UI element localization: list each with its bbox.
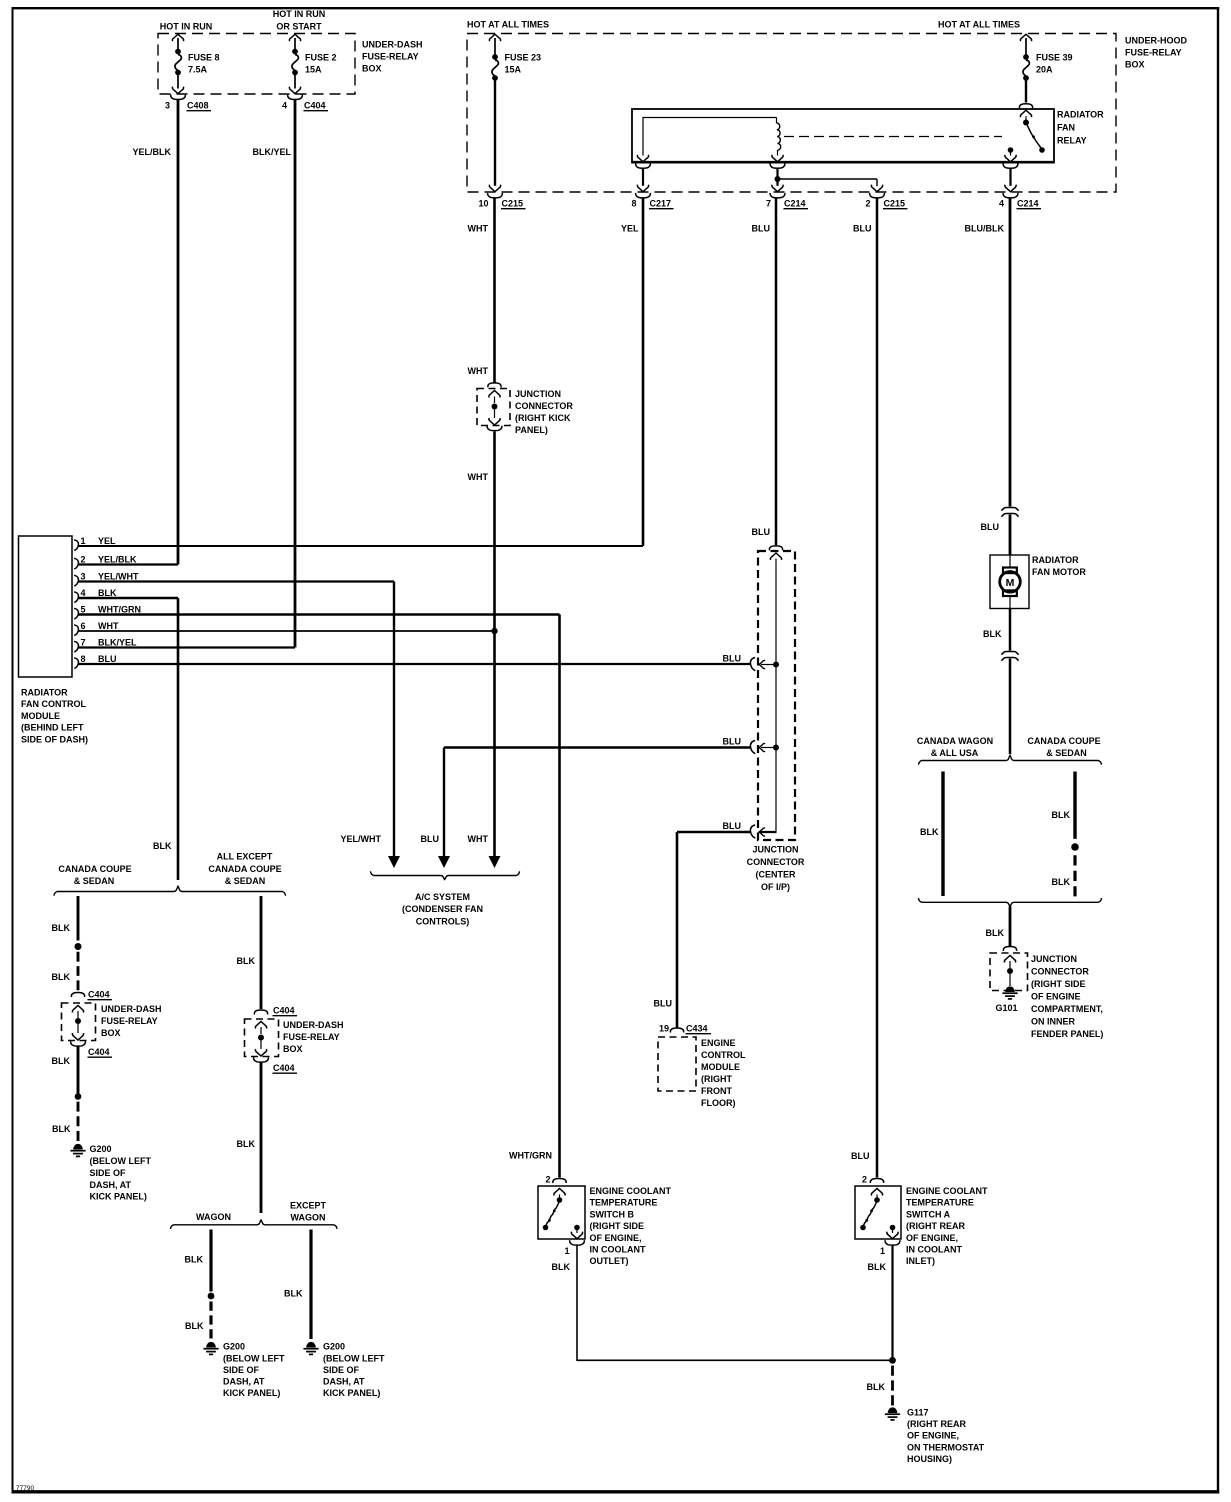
svg-text:(RIGHT REAR: (RIGHT REAR bbox=[907, 1419, 966, 1429]
svg-text:7.5A: 7.5A bbox=[188, 65, 208, 75]
svg-text:& SEDAN: & SEDAN bbox=[1046, 748, 1087, 758]
svg-text:IN COOLANT: IN COOLANT bbox=[590, 1245, 646, 1255]
svg-text:DASH, AT: DASH, AT bbox=[223, 1377, 265, 1387]
svg-text:BLK/YEL: BLK/YEL bbox=[252, 147, 291, 157]
svg-text:SWITCH A: SWITCH A bbox=[906, 1209, 951, 1219]
svg-text:YEL/BLK: YEL/BLK bbox=[132, 147, 171, 157]
svg-text:YEL: YEL bbox=[98, 536, 116, 546]
svg-text:4: 4 bbox=[81, 588, 86, 598]
svg-text:ENGINE COOLANT: ENGINE COOLANT bbox=[906, 1186, 988, 1196]
svg-text:KICK PANEL): KICK PANEL) bbox=[223, 1388, 280, 1398]
svg-text:FAN: FAN bbox=[1057, 123, 1075, 133]
svg-text:C404: C404 bbox=[273, 1006, 295, 1016]
svg-text:TEMPERATURE: TEMPERATURE bbox=[590, 1198, 658, 1208]
svg-text:10: 10 bbox=[478, 199, 488, 209]
svg-text:HOT IN RUN: HOT IN RUN bbox=[160, 22, 213, 32]
svg-text:EXCEPT: EXCEPT bbox=[290, 1201, 327, 1211]
svg-text:SWITCH B: SWITCH B bbox=[590, 1209, 635, 1219]
svg-text:FUSE-RELAY: FUSE-RELAY bbox=[283, 1032, 340, 1042]
svg-text:BLK: BLK bbox=[52, 972, 71, 982]
svg-text:WHT/GRN: WHT/GRN bbox=[98, 605, 141, 615]
svg-text:UNDER-DASH: UNDER-DASH bbox=[362, 40, 423, 50]
svg-text:ON THERMOSTAT: ON THERMOSTAT bbox=[907, 1442, 985, 1452]
svg-text:YEL/WHT: YEL/WHT bbox=[98, 572, 139, 582]
svg-text:BLU: BLU bbox=[723, 654, 742, 664]
svg-text:G117: G117 bbox=[907, 1408, 929, 1418]
svg-text:C217: C217 bbox=[650, 199, 672, 209]
svg-text:YEL/WHT: YEL/WHT bbox=[341, 834, 382, 844]
svg-text:BLU: BLU bbox=[654, 999, 673, 1009]
svg-text:BLK: BLK bbox=[237, 956, 256, 966]
svg-text:FUSE 23: FUSE 23 bbox=[505, 53, 542, 63]
svg-text:BLK: BLK bbox=[284, 1289, 303, 1299]
svg-text:WHT: WHT bbox=[468, 834, 489, 844]
svg-text:WHT: WHT bbox=[468, 472, 489, 482]
svg-text:BLK: BLK bbox=[867, 1382, 886, 1392]
svg-text:15A: 15A bbox=[505, 65, 522, 75]
svg-text:CONTROLS): CONTROLS) bbox=[416, 917, 470, 927]
svg-text:ENGINE: ENGINE bbox=[701, 1038, 736, 1048]
svg-text:(RIGHT KICK: (RIGHT KICK bbox=[515, 413, 571, 423]
svg-text:BLU: BLU bbox=[752, 527, 771, 537]
svg-text:4: 4 bbox=[999, 199, 1004, 209]
svg-text:UNDER-HOOD: UNDER-HOOD bbox=[1125, 36, 1187, 46]
svg-text:SIDE OF DASH): SIDE OF DASH) bbox=[21, 734, 88, 744]
svg-text:BLK: BLK bbox=[185, 1255, 204, 1265]
svg-text:OF I/P): OF I/P) bbox=[761, 882, 790, 892]
svg-text:OR START: OR START bbox=[276, 22, 322, 32]
svg-text:WHT: WHT bbox=[468, 366, 489, 376]
svg-text:BLK: BLK bbox=[52, 1124, 71, 1134]
svg-text:BOX: BOX bbox=[1125, 60, 1145, 70]
svg-text:3: 3 bbox=[165, 101, 170, 111]
svg-text:8: 8 bbox=[631, 199, 636, 209]
svg-text:CANADA WAGON: CANADA WAGON bbox=[917, 736, 993, 746]
svg-text:SIDE OF: SIDE OF bbox=[223, 1365, 260, 1375]
svg-text:YEL: YEL bbox=[621, 224, 639, 234]
svg-text:FAN MOTOR: FAN MOTOR bbox=[1032, 567, 1086, 577]
svg-text:BLK: BLK bbox=[237, 1139, 256, 1149]
svg-text:WHT: WHT bbox=[468, 224, 489, 234]
svg-text:BLK: BLK bbox=[1052, 877, 1071, 887]
svg-text:OF ENGINE,: OF ENGINE, bbox=[906, 1233, 958, 1243]
svg-text:SIDE OF: SIDE OF bbox=[90, 1168, 127, 1178]
svg-text:FLOOR): FLOOR) bbox=[701, 1098, 736, 1108]
svg-text:20A: 20A bbox=[1036, 65, 1053, 75]
svg-text:BLU: BLU bbox=[723, 821, 742, 831]
svg-text:BLU: BLU bbox=[98, 654, 117, 664]
svg-text:FRONT: FRONT bbox=[701, 1086, 732, 1096]
svg-text:BOX: BOX bbox=[283, 1044, 303, 1054]
svg-text:ENGINE COOLANT: ENGINE COOLANT bbox=[590, 1186, 672, 1196]
svg-text:YEL/BLK: YEL/BLK bbox=[98, 555, 137, 565]
svg-text:FUSE 2: FUSE 2 bbox=[305, 53, 337, 63]
svg-text:C215: C215 bbox=[884, 199, 906, 209]
svg-text:6: 6 bbox=[81, 621, 86, 631]
svg-text:UNDER-DASH: UNDER-DASH bbox=[101, 1004, 162, 1014]
svg-text:BLK/YEL: BLK/YEL bbox=[98, 638, 137, 648]
svg-text:ON INNER: ON INNER bbox=[1031, 1017, 1076, 1027]
svg-text:(RIGHT SIDE: (RIGHT SIDE bbox=[590, 1221, 645, 1231]
svg-text:CANADA COUPE: CANADA COUPE bbox=[1027, 736, 1100, 746]
svg-text:2: 2 bbox=[81, 555, 86, 565]
svg-text:FENDER PANEL): FENDER PANEL) bbox=[1031, 1029, 1103, 1039]
svg-text:BLK: BLK bbox=[185, 1321, 204, 1331]
svg-text:CONNECTOR: CONNECTOR bbox=[1031, 967, 1089, 977]
svg-text:M: M bbox=[1006, 577, 1015, 589]
svg-text:C404: C404 bbox=[273, 1063, 295, 1073]
svg-text:DASH, AT: DASH, AT bbox=[90, 1180, 132, 1190]
svg-text:WAGON: WAGON bbox=[291, 1213, 326, 1223]
svg-text:RADIATOR: RADIATOR bbox=[1057, 110, 1104, 120]
svg-text:OF ENGINE,: OF ENGINE, bbox=[907, 1431, 959, 1441]
svg-text:OF ENGINE: OF ENGINE bbox=[1031, 992, 1081, 1002]
svg-text:CONNECTOR: CONNECTOR bbox=[515, 401, 573, 411]
svg-text:(BEHIND LEFT: (BEHIND LEFT bbox=[21, 723, 84, 733]
svg-text:G200: G200 bbox=[90, 1144, 112, 1154]
svg-text:WHT: WHT bbox=[98, 621, 119, 631]
svg-text:TEMPERATURE: TEMPERATURE bbox=[906, 1198, 974, 1208]
svg-text:BLK: BLK bbox=[1052, 810, 1071, 820]
svg-text:HOUSING): HOUSING) bbox=[907, 1454, 952, 1464]
svg-text:CONNECTOR: CONNECTOR bbox=[747, 857, 805, 867]
svg-text:WHT/GRN: WHT/GRN bbox=[509, 1151, 552, 1161]
svg-text:HOT AT ALL TIMES: HOT AT ALL TIMES bbox=[467, 20, 549, 30]
svg-text:BLK: BLK bbox=[153, 841, 172, 851]
svg-text:C404: C404 bbox=[304, 101, 326, 111]
svg-text:15A: 15A bbox=[305, 65, 322, 75]
svg-text:C434: C434 bbox=[686, 1024, 708, 1034]
svg-text:(BELOW LEFT: (BELOW LEFT bbox=[323, 1354, 385, 1364]
svg-text:(RIGHT REAR: (RIGHT REAR bbox=[906, 1221, 965, 1231]
svg-text:CONTROL: CONTROL bbox=[701, 1050, 746, 1060]
svg-text:7: 7 bbox=[81, 638, 86, 648]
svg-text:FUSE-RELAY: FUSE-RELAY bbox=[1125, 48, 1182, 58]
svg-text:PANEL): PANEL) bbox=[515, 425, 548, 435]
svg-text:UNDER-DASH: UNDER-DASH bbox=[283, 1020, 344, 1030]
svg-text:BLU/BLK: BLU/BLK bbox=[965, 224, 1005, 234]
svg-text:FUSE 8: FUSE 8 bbox=[188, 53, 220, 63]
svg-text:BLU: BLU bbox=[853, 224, 872, 234]
svg-text:77790: 77790 bbox=[16, 1485, 34, 1492]
svg-text:COMPARTMENT,: COMPARTMENT, bbox=[1031, 1004, 1103, 1014]
svg-text:A/C SYSTEM: A/C SYSTEM bbox=[415, 892, 470, 902]
svg-text:C404: C404 bbox=[88, 990, 110, 1000]
svg-text:2: 2 bbox=[545, 1175, 550, 1185]
svg-text:(RIGHT SIDE: (RIGHT SIDE bbox=[1031, 979, 1086, 989]
svg-text:G101: G101 bbox=[996, 1003, 1018, 1013]
svg-text:MODULE: MODULE bbox=[701, 1062, 740, 1072]
svg-text:OUTLET): OUTLET) bbox=[590, 1256, 629, 1266]
svg-text:BOX: BOX bbox=[101, 1028, 121, 1038]
svg-text:3: 3 bbox=[81, 572, 86, 582]
svg-text:JUNCTION: JUNCTION bbox=[1031, 954, 1077, 964]
svg-text:ALL EXCEPT: ALL EXCEPT bbox=[217, 852, 273, 862]
svg-text:DASH, AT: DASH, AT bbox=[323, 1377, 365, 1387]
svg-text:BLK: BLK bbox=[986, 928, 1005, 938]
svg-text:INLET): INLET) bbox=[906, 1256, 935, 1266]
svg-text:BLK: BLK bbox=[52, 1056, 71, 1066]
svg-text:IN COOLANT: IN COOLANT bbox=[906, 1245, 962, 1255]
svg-text:(RIGHT: (RIGHT bbox=[701, 1074, 732, 1084]
svg-text:JUNCTION: JUNCTION bbox=[752, 845, 798, 855]
svg-text:2: 2 bbox=[862, 1175, 867, 1185]
svg-text:5: 5 bbox=[81, 605, 86, 615]
svg-text:(BELOW LEFT: (BELOW LEFT bbox=[90, 1156, 152, 1166]
svg-text:1: 1 bbox=[81, 536, 86, 546]
svg-text:G200: G200 bbox=[223, 1342, 245, 1352]
svg-text:RADIATOR: RADIATOR bbox=[21, 688, 68, 698]
svg-text:BLK: BLK bbox=[98, 588, 117, 598]
svg-text:C214: C214 bbox=[784, 199, 806, 209]
svg-text:C215: C215 bbox=[502, 199, 524, 209]
svg-text:OF ENGINE,: OF ENGINE, bbox=[590, 1233, 642, 1243]
svg-text:8: 8 bbox=[81, 654, 86, 664]
svg-text:BLK: BLK bbox=[52, 923, 71, 933]
svg-text:HOT AT ALL TIMES: HOT AT ALL TIMES bbox=[938, 20, 1020, 30]
svg-text:C408: C408 bbox=[187, 101, 209, 111]
svg-text:FUSE 39: FUSE 39 bbox=[1036, 53, 1073, 63]
svg-text:JUNCTION: JUNCTION bbox=[515, 389, 561, 399]
svg-text:CANADA COUPE: CANADA COUPE bbox=[208, 864, 281, 874]
svg-text:(CENTER: (CENTER bbox=[756, 870, 796, 880]
svg-text:WAGON: WAGON bbox=[196, 1212, 231, 1222]
svg-text:BLU: BLU bbox=[752, 224, 771, 234]
svg-text:HOT IN RUN: HOT IN RUN bbox=[273, 9, 326, 19]
svg-text:SIDE OF: SIDE OF bbox=[323, 1365, 360, 1375]
svg-text:19: 19 bbox=[659, 1024, 669, 1034]
svg-text:BLK: BLK bbox=[920, 827, 939, 837]
svg-text:4: 4 bbox=[282, 101, 287, 111]
svg-text:KICK PANEL): KICK PANEL) bbox=[90, 1192, 147, 1202]
svg-text:BLU: BLU bbox=[421, 834, 440, 844]
svg-text:FUSE-RELAY: FUSE-RELAY bbox=[101, 1016, 158, 1026]
svg-text:BLU: BLU bbox=[851, 1151, 870, 1161]
svg-text:RELAY: RELAY bbox=[1057, 136, 1087, 146]
svg-text:(BELOW LEFT: (BELOW LEFT bbox=[223, 1354, 285, 1364]
svg-text:BLK: BLK bbox=[983, 629, 1002, 639]
svg-text:FAN CONTROL: FAN CONTROL bbox=[21, 699, 86, 709]
svg-text:C404: C404 bbox=[88, 1047, 110, 1057]
svg-text:BLU: BLU bbox=[723, 737, 742, 747]
svg-text:FUSE-RELAY: FUSE-RELAY bbox=[362, 52, 419, 62]
svg-text:7: 7 bbox=[766, 199, 771, 209]
svg-text:CANADA COUPE: CANADA COUPE bbox=[58, 864, 131, 874]
svg-text:BLK: BLK bbox=[552, 1262, 571, 1272]
svg-text:1: 1 bbox=[564, 1246, 569, 1256]
svg-text:BLK: BLK bbox=[868, 1262, 887, 1272]
svg-text:BLU: BLU bbox=[981, 522, 1000, 532]
svg-text:C214: C214 bbox=[1017, 199, 1039, 209]
svg-text:RADIATOR: RADIATOR bbox=[1032, 555, 1079, 565]
svg-text:& SEDAN: & SEDAN bbox=[74, 876, 115, 886]
svg-text:KICK PANEL): KICK PANEL) bbox=[323, 1388, 380, 1398]
svg-text:1: 1 bbox=[880, 1246, 885, 1256]
svg-text:G200: G200 bbox=[323, 1342, 345, 1352]
svg-text:& SEDAN: & SEDAN bbox=[225, 876, 266, 886]
svg-text:2: 2 bbox=[865, 199, 870, 209]
svg-text:(CONDENSER FAN: (CONDENSER FAN bbox=[402, 904, 483, 914]
svg-text:BOX: BOX bbox=[362, 64, 382, 74]
svg-text:MODULE: MODULE bbox=[21, 711, 60, 721]
svg-text:& ALL USA: & ALL USA bbox=[931, 748, 979, 758]
